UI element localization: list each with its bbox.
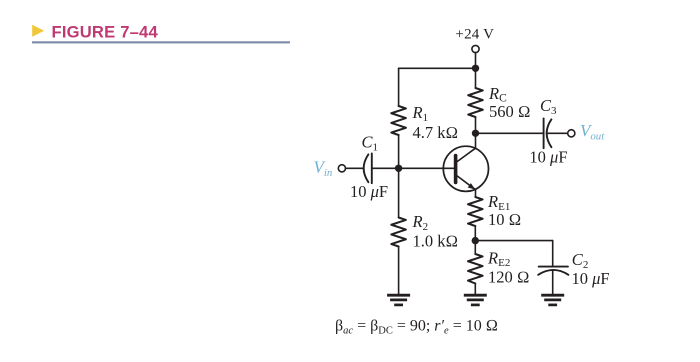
svg-text:R1: R1 [412,103,429,124]
capacitor C3 [543,118,545,148]
wire C2 bottom plate to ground [552,270,554,294]
transistor Q1 circle [443,146,488,191]
junction dot top node [472,65,479,72]
wire RC top [475,68,477,88]
wire collector node to C3 [476,132,544,134]
resistor R1 [391,106,406,135]
svg-text:10 μF: 10 μF [572,269,610,288]
ground under RE2 [464,294,487,297]
resistor RE1 [468,197,483,226]
wire emitter node to C2 [475,240,552,242]
transistor Q1 collector lead [457,133,475,161]
svg-text:+24 V: +24 V [455,27,494,43]
resistor R2 [391,218,406,247]
ground under C2 [541,294,564,297]
svg-text:Vin: Vin [314,157,333,179]
wire base node to transistor base [399,167,454,169]
transistor Q1 base bar [454,156,458,183]
resistor RC [468,88,483,117]
wire RE1 bottom to emitter node [474,226,476,241]
wire supply terminal to top node [475,53,477,69]
transistor Q1 emitter arrow [468,183,476,189]
svg-text:RE2: RE2 [487,248,510,269]
junction dot emitter node [472,237,479,244]
svg-text:Vout: Vout [580,121,605,143]
svg-text:FIGURE 7–44: FIGURE 7–44 [52,22,159,41]
wire RC bottom to collector node [475,117,477,133]
wire C3 to output terminal [547,132,568,134]
output terminal Vout [568,130,575,137]
ground under R2 [387,294,410,297]
svg-text:10 Ω: 10 Ω [488,210,521,229]
wire RE2 bottom to ground [474,284,476,294]
transistor Q1 emitter lead [457,176,475,197]
wire down to R1 top [398,68,400,106]
svg-text:C3: C3 [540,96,557,117]
svg-text:1.0 kΩ: 1.0 kΩ [413,231,459,250]
wire R2 top from base node [398,168,400,217]
wire R2 bottom to ground [398,247,400,294]
wire C1 to base node [372,167,399,169]
wire emitter node to RE2 [474,241,476,254]
capacitor C2 [539,266,568,268]
wire top node to above R1 [399,67,476,69]
svg-text:4.7 kΩ: 4.7 kΩ [413,123,459,142]
capacitor C1 [364,154,369,182]
input terminal Vin [338,165,345,172]
svg-text:R2: R2 [412,212,429,233]
junction dot base node [395,165,402,172]
svg-text:10 μF: 10 μF [350,182,388,201]
svg-text:120 Ω: 120 Ω [488,268,530,287]
svg-text:560 Ω: 560 Ω [489,102,531,121]
wire Vin terminal to C1 [346,167,364,169]
figure header rule [32,41,290,43]
wire down to C2 top plate [552,241,554,267]
svg-text:10 μF: 10 μF [529,147,567,166]
svg-text:βac = βDC = 90; r′e = 10 Ω: βac = βDC = 90; r′e = 10 Ω [335,318,498,337]
figure header arrow [32,25,44,37]
supply terminal +24 V [472,45,479,52]
wire R1 bottom to base node [398,135,400,168]
junction dot collector node [472,130,479,137]
resistor RE2 [468,254,483,284]
svg-text:C1: C1 [362,132,379,153]
